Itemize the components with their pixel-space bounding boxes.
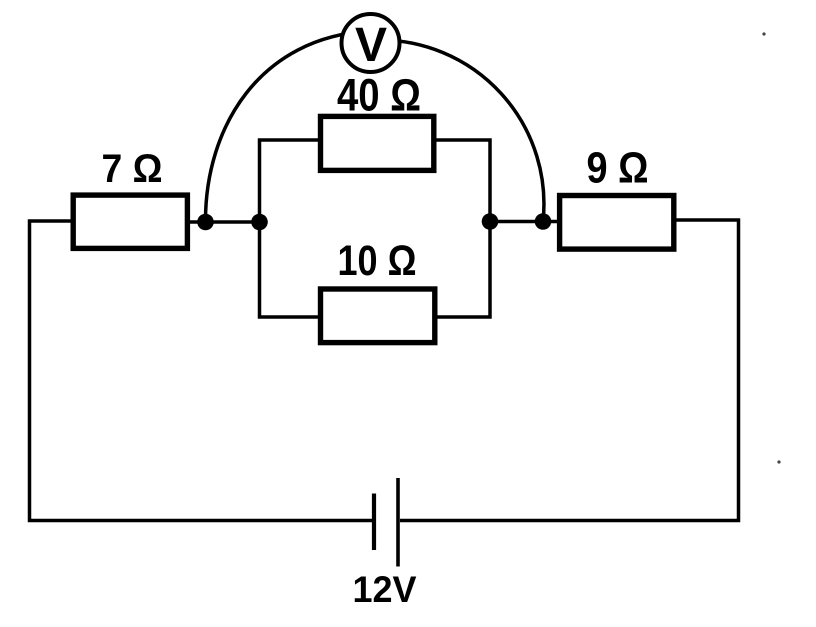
battery B1 positive plate (long) <box>396 478 400 567</box>
resistor R3 10 ohm <box>321 289 435 343</box>
node B (parallel branch, left) <box>251 214 268 231</box>
wire: node C to 9 ohm <box>490 220 560 224</box>
svg-text:7 Ω: 7 Ω <box>102 147 163 191</box>
svg-text:12V: 12V <box>353 569 417 610</box>
resistor R1 7 ohm <box>73 195 187 248</box>
battery B1 negative plate (short) <box>372 494 376 551</box>
wire: voltmeter lead right (curved) <box>378 40 544 222</box>
svg-text:40 Ω: 40 Ω <box>337 70 421 121</box>
svg-text:10 Ω: 10 Ω <box>338 237 417 285</box>
wire: left loop (7-ohm left lead, left side, bottom to battery minus) <box>30 221 373 521</box>
voltmeter V1 circle <box>342 14 400 72</box>
wire: right loop (battery plus, bottom right, right side up to 9-ohm right lead) <box>400 220 739 521</box>
node A (voltmeter tap, left) <box>197 214 214 231</box>
node D (voltmeter tap, right) <box>535 213 552 230</box>
wire: 7 ohm to node B <box>188 220 260 224</box>
speck artifact right middle <box>777 460 780 463</box>
resistor R4 9 ohm <box>560 196 674 250</box>
svg-text:9 Ω: 9 Ω <box>587 144 649 193</box>
speck artifact top right <box>762 32 765 35</box>
svg-text:V: V <box>355 19 387 72</box>
wire: voltmeter lead left (curved) <box>205 31 370 222</box>
wire: left branch riser to 40 ohm <box>260 140 320 317</box>
resistor R2 40 ohm <box>321 116 434 170</box>
node C (parallel branch, right) <box>482 213 499 230</box>
wire: right branch riser from 40 ohm <box>435 140 490 317</box>
